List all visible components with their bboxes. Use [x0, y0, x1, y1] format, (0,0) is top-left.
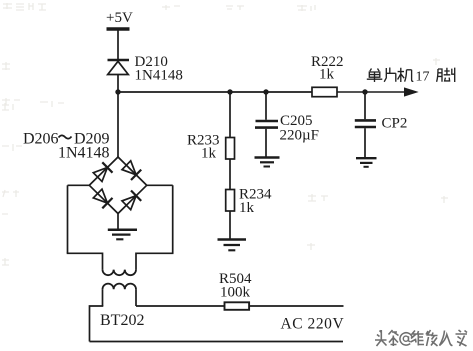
wire primary left lead	[102, 289, 104, 306]
svg-text:1N4148: 1N4148	[135, 68, 183, 84]
transformer BT202 primary winding	[103, 284, 137, 290]
svg-text:CP2: CP2	[382, 116, 408, 132]
svg-text:100k: 100k	[220, 285, 251, 301]
svg-text:+5V: +5V	[106, 10, 133, 26]
wire rail to C205	[265, 92, 267, 120]
junction node at R233 branch	[227, 89, 232, 94]
wire +5V bar to D210	[117, 31, 119, 60]
wire to transformer secondary right	[135, 253, 137, 270]
diode top-left of bridge	[93, 162, 112, 181]
capacitor C205	[255, 121, 278, 128]
tilde of D206~D209	[59, 135, 72, 138]
transformer BT202 secondary winding	[103, 270, 137, 276]
svg-text:D206: D206	[23, 131, 59, 148]
junction node at CP2 branch	[362, 89, 367, 94]
svg-text:1k: 1k	[319, 67, 335, 83]
svg-text:17: 17	[416, 70, 430, 85]
wire R504 to AC terminal	[249, 305, 343, 307]
wire main rail right segment with arrow to MCU	[337, 88, 417, 96]
resistor R222	[312, 87, 337, 96]
diode bottom-right of bridge	[122, 191, 141, 210]
power rail +5V bar	[107, 27, 130, 30]
svg-text:1N4148: 1N4148	[58, 145, 110, 162]
wire primary right to R504	[136, 305, 225, 307]
junction node at D210	[115, 89, 120, 94]
wire AC bottom rail	[90, 341, 344, 343]
bridge rectifier diamond D206-D209	[89, 157, 146, 214]
wire C205 to ground	[265, 129, 267, 157]
wire R233 to R234	[229, 159, 231, 190]
svg-text:AC 220V: AC 220V	[281, 316, 345, 333]
diode D210	[108, 60, 130, 75]
wire to transformer secondary left	[102, 253, 104, 270]
wire main rail left segment	[118, 91, 312, 93]
watermark 头条@维修人家	[375, 330, 399, 346]
wire box left side	[67, 185, 69, 253]
wire rail to CP2	[364, 92, 366, 119]
wire box right side	[172, 185, 174, 253]
junction node at C205 branch	[263, 89, 268, 94]
wire bridge right stub	[147, 184, 173, 186]
resistor R233	[226, 138, 235, 160]
ground below R234	[218, 240, 247, 251]
wire rail to R233	[229, 92, 231, 138]
capacitor CP2	[355, 120, 376, 127]
wire box bottom left segment	[67, 252, 103, 254]
watermark 头条@维修人家 halo	[375, 330, 467, 346]
wire CP2 to ground	[364, 128, 366, 157]
wire bridge left stub	[68, 184, 90, 186]
wire bridge bottom to ground	[117, 214, 119, 230]
resistor R234	[226, 190, 235, 212]
wire D210 to bridge top	[117, 75, 119, 158]
ground inside bridge box	[108, 230, 137, 240]
ground below C205	[255, 158, 280, 167]
svg-text:1k: 1k	[239, 200, 255, 216]
wire primary left jog down	[90, 306, 104, 342]
label MCU pin 17 (单片机 17 脚)	[367, 68, 414, 83]
faint page texture marks	[2, 3, 448, 265]
resistor R504	[225, 302, 250, 310]
diode top-right of bridge	[122, 161, 141, 180]
wire R234 to ground	[229, 211, 231, 239]
svg-text:220µF: 220µF	[280, 128, 320, 144]
svg-text:1k: 1k	[201, 146, 217, 162]
ground below CP2	[356, 158, 377, 167]
svg-text:BT202: BT202	[100, 312, 144, 329]
diode bottom-left of bridge	[93, 189, 112, 208]
wire box bottom right segment	[136, 252, 174, 254]
wire primary right lead	[135, 289, 137, 306]
